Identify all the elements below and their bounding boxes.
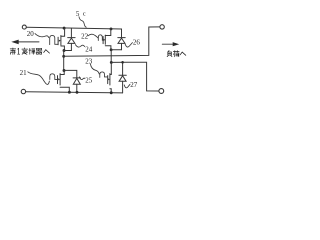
label 26: [133, 38, 141, 46]
diode D24 anode riser: [70, 43, 72, 50]
svg-text:23: 23: [85, 57, 93, 65]
wire cell B bottom bar: [111, 49, 122, 51]
leader for 23: [90, 64, 99, 74]
node top bus / T22 drain: [110, 27, 113, 30]
leader for 25: [79, 77, 85, 80]
node bottom bus / Q23 source: [110, 91, 113, 94]
glyph へ: [44, 50, 50, 53]
node D27 top: [121, 61, 124, 64]
label 22: [81, 32, 89, 40]
transistor Q20 channel bar: [60, 36, 62, 46]
label 5c: [76, 10, 86, 18]
leader for 24: [75, 45, 84, 47]
transistor Q21 gate bar: [57, 76, 59, 84]
terminal BL: [21, 89, 25, 93]
text 負荷へ (to load): [167, 51, 186, 57]
wire Q20 source lead: [61, 46, 65, 50]
node rail B tap: [110, 61, 113, 64]
diode D26 anode riser: [121, 43, 123, 49]
node cell A bar left: [63, 49, 66, 52]
transistor Q21 arrow: [58, 78, 60, 80]
wire bottom bus: [26, 92, 123, 93]
leader for 22: [88, 34, 98, 38]
diode D26 triangle: [118, 38, 125, 43]
diode D27 anode riser: [122, 81, 124, 93]
wire rail B to load terminal: [111, 62, 159, 91]
diode D25 triangle: [73, 78, 80, 84]
transistor Q20 arrow: [59, 40, 61, 42]
transistor Q21 channel bar: [59, 74, 61, 85]
wire Q23 source lead: [110, 89, 111, 93]
terminal BR: [159, 89, 164, 94]
node bottom bus / D25: [76, 91, 79, 94]
label 20: [27, 30, 35, 38]
arrow to load: [162, 43, 173, 45]
transistor Q23 channel bar: [109, 74, 111, 85]
transistor Q23 gate bar: [107, 76, 109, 84]
glyph 第: [10, 48, 16, 54]
label 25: [85, 76, 93, 84]
glyph 荷: [173, 51, 179, 57]
svg-text:25: 25: [85, 76, 93, 84]
wire rail A to load terminal: [64, 27, 160, 56]
transistor Q22 channel bar: [104, 35, 106, 44]
svg-text:26: 26: [133, 38, 141, 46]
glyph 変: [22, 48, 28, 54]
node top bus / T20 drain: [63, 27, 66, 30]
arrow to first converter: [18, 41, 39, 43]
diode D24 bar: [68, 37, 75, 39]
glyph へ: [180, 52, 186, 55]
diode D24 triangle: [68, 38, 75, 43]
wire top bus: [26, 27, 121, 37]
text 第1変換器へ (to 1st converter): [10, 48, 49, 55]
glyph 負: [167, 51, 172, 57]
leader for 26: [125, 43, 132, 47]
glyph 1: [18, 48, 20, 54]
wire Q20 drain lead: [61, 28, 65, 36]
node bottom bus / Q21 source: [68, 91, 71, 94]
svg-text:c: c: [83, 11, 86, 18]
svg-text:27: 27: [130, 81, 138, 89]
leader for 5c: [79, 17, 86, 27]
diode D27 triangle: [119, 76, 126, 82]
node rail A tap: [62, 55, 65, 58]
svg-text:22: 22: [81, 32, 89, 40]
wire Q22 source lead: [105, 46, 111, 50]
transistor Q22 gate bar: [102, 37, 104, 44]
leader for 21: [28, 72, 50, 85]
diode D25 anode riser: [76, 84, 78, 92]
wire cell A bottom bar: [64, 49, 72, 51]
svg-text:21: 21: [20, 69, 28, 77]
wire cell C top bar: [64, 70, 77, 78]
diode D26 bar: [118, 37, 125, 39]
terminal TL: [22, 25, 26, 29]
leader for 27: [124, 84, 130, 88]
glyph 換: [29, 48, 35, 54]
transistor Q20 gate bar: [57, 37, 59, 45]
svg-text:24: 24: [85, 46, 93, 54]
terminal TR: [160, 25, 164, 29]
leader for 20: [35, 34, 49, 38]
svg-text:20: 20: [27, 30, 35, 38]
label 21: [20, 69, 28, 77]
glyph 器: [36, 48, 42, 54]
wire Q23 drain lead: [110, 62, 111, 74]
transistor Q23 arrow: [108, 78, 110, 80]
label 24: [85, 46, 93, 54]
diode D27 bar: [119, 74, 126, 76]
wire leg A vertical: [63, 50, 65, 71]
node cell C bar left: [63, 69, 66, 72]
wire Q21 source lead: [60, 87, 69, 92]
label 23: [85, 57, 93, 65]
wire Q21 drain lead: [60, 70, 64, 74]
node leg B mid: [110, 48, 113, 51]
wire Q22 drain lead: [105, 29, 111, 36]
diode D25 bar: [73, 77, 80, 79]
diode D24 cathode riser: [70, 28, 72, 37]
wire leg B vertical: [110, 50, 112, 63]
transistor Q22 arrow: [104, 39, 106, 41]
label 27: [130, 81, 138, 89]
diode D27 cathode riser: [122, 62, 124, 75]
